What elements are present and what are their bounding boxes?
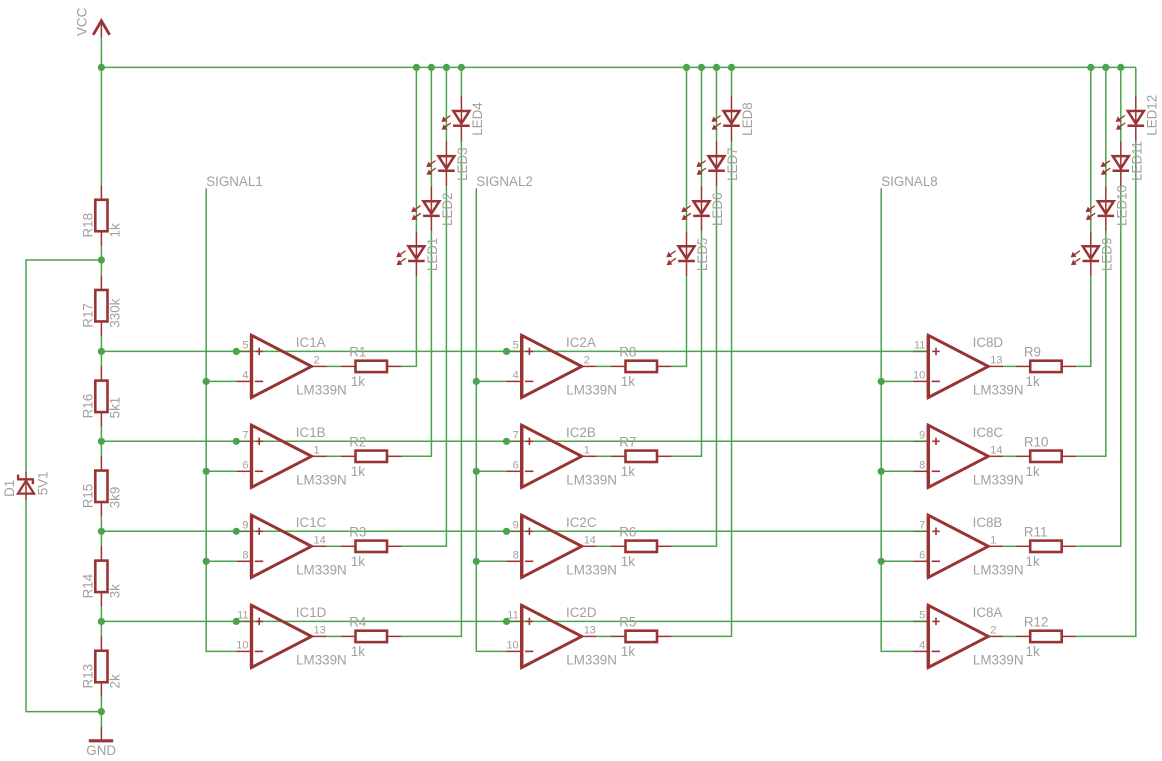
- LED LED11: [1101, 141, 1144, 186]
- wire R13 to next node: [100, 697, 102, 712]
- wire rail to LED10: [1105, 67, 1107, 186]
- wire rail to LED7: [716, 67, 718, 141]
- resistor R9 1k: [1016, 345, 1077, 390]
- svg-text:10: 10: [913, 370, 925, 382]
- svg-text:R13: R13: [80, 664, 95, 689]
- svg-text:330k: 330k: [108, 298, 123, 327]
- resistor R12 1k: [1016, 615, 1077, 660]
- junction rail LED5: [683, 64, 690, 71]
- wire IC1A output to R1: [327, 365, 341, 367]
- svg-text:R10: R10: [1024, 434, 1049, 449]
- resistor R5 1k: [611, 615, 672, 660]
- svg-text:LED2: LED2: [440, 193, 455, 227]
- svg-text:1k: 1k: [621, 374, 635, 389]
- wire R6 to LED7: [672, 186, 717, 546]
- junction IC1D noninverting input: [233, 618, 240, 625]
- LED LED7: [697, 141, 740, 186]
- svg-text:LED6: LED6: [710, 193, 725, 227]
- svg-text:SIGNAL1: SIGNAL1: [206, 174, 263, 189]
- svg-text:1: 1: [990, 534, 996, 546]
- svg-text:1: 1: [314, 444, 320, 456]
- svg-text:IC2D: IC2D: [566, 605, 597, 620]
- svg-text:1k: 1k: [108, 223, 123, 237]
- svg-text:R16: R16: [80, 394, 95, 419]
- svg-text:1k: 1k: [1026, 644, 1040, 659]
- wire SIGNAL1 spur row 2: [206, 470, 236, 472]
- wire SIGNAL1 spur row 3: [206, 560, 236, 562]
- junction SIGNAL8 row 3: [878, 558, 885, 565]
- wire net SIGNAL1 vertical: [206, 188, 236, 651]
- junction rail LED1: [413, 64, 420, 71]
- wire R11 to LED11: [1076, 186, 1121, 546]
- op-amp comparator IC1B LM339N: [236, 425, 346, 488]
- svg-text:4: 4: [242, 370, 248, 382]
- svg-text:8: 8: [919, 460, 925, 472]
- wire R4 to LED4: [402, 141, 462, 636]
- svg-text:7: 7: [242, 430, 248, 442]
- svg-text:IC8C: IC8C: [973, 425, 1004, 440]
- op-amp comparator IC2A LM339N: [507, 335, 617, 398]
- svg-text:IC8B: IC8B: [973, 515, 1003, 530]
- wire reference row 3: [101, 530, 928, 532]
- wire IC8C output to R10: [1003, 455, 1015, 457]
- wire rail to LED6: [701, 67, 703, 186]
- LED LED3: [427, 141, 470, 186]
- svg-text:5: 5: [919, 610, 925, 622]
- resistor R16 5k1: [80, 366, 122, 427]
- svg-text:1k: 1k: [1026, 554, 1040, 569]
- svg-text:14: 14: [314, 534, 326, 546]
- junction ladder tap 1: [98, 348, 105, 355]
- wire SIGNAL1 spur row 1: [206, 380, 236, 382]
- svg-text:R8: R8: [619, 345, 636, 360]
- wire tap2 to R15: [100, 441, 102, 456]
- svg-text:D1: D1: [2, 480, 17, 497]
- LED LED12: [1116, 95, 1159, 141]
- wire rail to LED9: [1090, 67, 1092, 231]
- wire R16 to next node: [100, 427, 102, 442]
- wire IC8D output to R9: [1003, 365, 1015, 367]
- resistor R18 1k: [80, 185, 122, 246]
- svg-text:LM339N: LM339N: [566, 383, 617, 398]
- svg-text:5: 5: [513, 340, 519, 352]
- svg-text:R18: R18: [80, 213, 95, 238]
- resistor R4 1k: [341, 615, 402, 660]
- svg-text:4: 4: [919, 640, 925, 652]
- svg-text:1: 1: [584, 444, 590, 456]
- svg-text:R5: R5: [619, 615, 636, 630]
- svg-text:LM339N: LM339N: [566, 653, 617, 668]
- wire rail to LED3: [445, 67, 447, 141]
- wire bottom node to GND: [100, 712, 102, 727]
- junction rail LED11: [1117, 64, 1124, 71]
- wire IC8B output to R11: [1003, 545, 1015, 547]
- svg-text:1k: 1k: [351, 554, 365, 569]
- junction IC2A noninverting input: [503, 348, 510, 355]
- wire IC2C output to R6: [597, 545, 611, 547]
- wire IC2B output to R7: [597, 455, 611, 457]
- wire reference row 2: [101, 440, 928, 442]
- svg-text:6: 6: [242, 460, 248, 472]
- junction ladder tap 4: [98, 618, 105, 625]
- wire R12 to LED12: [1076, 141, 1136, 636]
- wire R18 to node R17: [100, 246, 102, 260]
- svg-text:IC1A: IC1A: [296, 335, 326, 350]
- svg-text:LM339N: LM339N: [973, 653, 1024, 668]
- svg-text:LM339N: LM339N: [566, 473, 617, 488]
- svg-text:SIGNAL8: SIGNAL8: [881, 174, 938, 189]
- op-amp comparator IC8A LM339N: [913, 605, 1023, 668]
- wire tap1 to R16: [100, 351, 102, 366]
- resistor R15 3k9: [80, 456, 122, 517]
- junction SIGNAL8 row 2: [878, 468, 885, 475]
- LED LED2: [412, 186, 455, 231]
- svg-text:2k: 2k: [108, 674, 123, 688]
- svg-text:R7: R7: [619, 434, 636, 449]
- wire net SIGNAL2 vertical: [476, 188, 506, 651]
- svg-text:6: 6: [919, 550, 925, 562]
- resistor R10 1k: [1016, 434, 1077, 479]
- junction rail LED9: [1087, 64, 1094, 71]
- svg-text:LM339N: LM339N: [296, 383, 347, 398]
- svg-text:14: 14: [990, 444, 1002, 456]
- wire R1 to LED1: [402, 276, 417, 366]
- junction rail LED7: [713, 64, 720, 71]
- wire rail to LED1: [415, 67, 417, 231]
- junction SIGNAL2 row 2: [473, 468, 480, 475]
- junction SIGNAL8 row 1: [878, 378, 885, 385]
- svg-text:5: 5: [242, 340, 248, 352]
- svg-text:1k: 1k: [1026, 374, 1040, 389]
- svg-text:IC2B: IC2B: [566, 425, 596, 440]
- wire R10 to LED10: [1076, 231, 1106, 456]
- svg-text:LM339N: LM339N: [973, 383, 1024, 398]
- wire R2 to LED2: [402, 231, 432, 456]
- op-amp comparator IC1A LM339N: [236, 335, 346, 398]
- svg-text:LM339N: LM339N: [973, 563, 1024, 578]
- resistor R3 1k: [341, 524, 402, 569]
- svg-text:7: 7: [919, 520, 925, 532]
- LED LED5: [667, 231, 710, 276]
- svg-text:LED11: LED11: [1130, 141, 1145, 181]
- wire rail to LED4: [460, 67, 462, 96]
- junction rail LED6: [698, 64, 705, 71]
- wire SIGNAL8 spur row 3: [881, 560, 913, 562]
- svg-text:LED10: LED10: [1115, 185, 1130, 226]
- svg-text:9: 9: [513, 520, 519, 532]
- svg-text:LED1: LED1: [425, 238, 440, 272]
- op-amp comparator IC2D LM339N: [506, 605, 616, 668]
- junction rail LED3: [443, 64, 450, 71]
- svg-text:10: 10: [236, 640, 248, 652]
- wire rail to LED11: [1120, 67, 1122, 141]
- wire SIGNAL8 spur row 2: [881, 470, 913, 472]
- svg-text:13: 13: [990, 354, 1002, 366]
- resistor R2 1k: [341, 434, 402, 479]
- svg-text:13: 13: [584, 624, 596, 636]
- svg-text:LED7: LED7: [725, 147, 740, 181]
- wire D1 bottom to ladder bottom: [26, 500, 101, 711]
- svg-text:R17: R17: [80, 303, 95, 328]
- wire SIGNAL8 spur row 1: [881, 380, 913, 382]
- svg-text:R4: R4: [349, 615, 367, 630]
- resistor R11 1k: [1016, 524, 1077, 569]
- resistor R13 2k: [80, 636, 122, 697]
- wire IC2D output to R5: [597, 635, 611, 637]
- op-amp comparator IC2B LM339N: [507, 425, 617, 488]
- wire R3 to LED3: [402, 186, 447, 546]
- svg-text:1k: 1k: [351, 374, 365, 389]
- svg-text:2: 2: [584, 354, 590, 366]
- wire rail to LED5: [686, 67, 688, 231]
- LED LED4: [442, 96, 485, 141]
- resistor R1 1k: [341, 345, 402, 390]
- svg-text:4: 4: [513, 370, 519, 382]
- svg-text:R6: R6: [619, 524, 636, 539]
- svg-text:9: 9: [919, 430, 925, 442]
- svg-text:SIGNAL2: SIGNAL2: [476, 174, 533, 189]
- svg-text:IC1D: IC1D: [296, 605, 327, 620]
- svg-text:R12: R12: [1024, 615, 1049, 630]
- wire VCC to top rail: [100, 38, 102, 68]
- svg-text:IC8A: IC8A: [973, 605, 1003, 620]
- svg-text:1k: 1k: [621, 554, 635, 569]
- svg-text:IC1C: IC1C: [296, 515, 327, 530]
- junction IC2B noninverting input: [503, 438, 510, 445]
- svg-text:LED12: LED12: [1145, 95, 1160, 136]
- wire rail to LED2: [430, 67, 432, 186]
- wire SIGNAL2 spur row 1: [476, 380, 506, 382]
- svg-text:5k1: 5k1: [108, 397, 123, 419]
- junction IC1B noninverting input: [233, 438, 240, 445]
- junction ladder bottom node: [98, 708, 105, 715]
- svg-text:8: 8: [242, 550, 248, 562]
- svg-text:LED8: LED8: [740, 102, 755, 136]
- svg-text:VCC: VCC: [75, 7, 90, 36]
- svg-text:LED5: LED5: [695, 238, 710, 272]
- svg-text:1k: 1k: [351, 464, 365, 479]
- svg-text:LED4: LED4: [470, 102, 485, 136]
- svg-text:5V1: 5V1: [35, 471, 50, 495]
- junction rail LED8: [728, 64, 735, 71]
- svg-text:1k: 1k: [1026, 464, 1040, 479]
- svg-text:10: 10: [506, 640, 518, 652]
- junction SIGNAL1 row 2: [203, 468, 210, 475]
- LED LED8: [712, 96, 755, 141]
- resistor R17 330k: [80, 275, 122, 336]
- wire R14 to next node: [100, 607, 102, 622]
- wire IC8A output to R12: [1003, 635, 1015, 637]
- svg-text:2: 2: [990, 624, 996, 636]
- op-amp comparator IC8B LM339N: [913, 515, 1023, 578]
- resistor R6 1k: [611, 524, 672, 569]
- wire SIGNAL2 spur row 2: [476, 470, 506, 472]
- wire tap3 to R14: [100, 531, 102, 546]
- junction SIGNAL1 row 3: [203, 558, 210, 565]
- wire R17 to tap1: [100, 336, 102, 351]
- op-amp comparator IC8C LM339N: [913, 425, 1023, 488]
- op-amp comparator IC1D LM339N: [236, 605, 346, 668]
- svg-text:LED3: LED3: [455, 147, 470, 181]
- LED LED10: [1086, 185, 1129, 231]
- junction IC1C noninverting input: [233, 528, 240, 535]
- LED LED9: [1071, 231, 1114, 276]
- svg-text:LM339N: LM339N: [296, 563, 347, 578]
- resistor R7 1k: [611, 434, 672, 479]
- svg-text:6: 6: [513, 460, 519, 472]
- svg-text:LED9: LED9: [1100, 238, 1115, 272]
- wire R7 to LED6: [672, 231, 702, 456]
- svg-text:IC2A: IC2A: [566, 335, 596, 350]
- svg-text:LM339N: LM339N: [296, 653, 347, 668]
- svg-text:R11: R11: [1024, 524, 1048, 539]
- svg-text:LM339N: LM339N: [973, 473, 1024, 488]
- wire rail to LED12: [1135, 67, 1137, 96]
- junction ladder tap 3: [98, 528, 105, 535]
- LED LED1: [397, 231, 440, 276]
- wire tap4 to R13: [100, 621, 102, 636]
- wire R5 to LED8: [672, 141, 732, 636]
- svg-text:GND: GND: [86, 743, 116, 758]
- junction rail LED4: [458, 64, 465, 71]
- junction rail LED2: [428, 64, 435, 71]
- junction ladder node D1 tap: [98, 256, 105, 263]
- wire node to R17: [100, 260, 102, 275]
- wire reference row 1: [101, 350, 928, 352]
- op-amp comparator IC8D LM339N: [913, 335, 1023, 398]
- wire IC1C output to R3: [327, 545, 341, 547]
- svg-text:IC8D: IC8D: [973, 335, 1004, 350]
- wire R15 to next node: [100, 517, 102, 532]
- svg-text:R2: R2: [349, 434, 366, 449]
- svg-text:9: 9: [242, 520, 248, 532]
- op-amp comparator IC1C LM339N: [236, 515, 346, 578]
- svg-text:R3: R3: [349, 524, 366, 539]
- wire R9 to LED9: [1076, 276, 1091, 366]
- svg-text:3k: 3k: [108, 584, 123, 598]
- power symbol VCC: [75, 7, 110, 37]
- wire R8 to LED5: [672, 276, 687, 366]
- svg-text:R9: R9: [1024, 345, 1041, 360]
- junction SIGNAL2 row 1: [473, 378, 480, 385]
- power symbol GND: [86, 727, 116, 758]
- svg-text:2: 2: [314, 354, 320, 366]
- svg-text:LM339N: LM339N: [296, 473, 347, 488]
- svg-text:1k: 1k: [621, 464, 635, 479]
- junction IC2D noninverting input: [503, 618, 510, 625]
- junction SIGNAL1 row 1: [203, 378, 210, 385]
- wire net SIGNAL8 vertical: [881, 188, 913, 651]
- junction IC1A noninverting input: [233, 348, 240, 355]
- svg-text:13: 13: [314, 624, 326, 636]
- LED LED6: [682, 186, 725, 231]
- svg-text:IC1B: IC1B: [296, 425, 326, 440]
- svg-text:14: 14: [584, 534, 596, 546]
- resistor R8 1k: [611, 345, 672, 390]
- svg-text:R14: R14: [80, 573, 95, 598]
- junction top rail at ladder: [98, 64, 105, 71]
- svg-text:IC2C: IC2C: [566, 515, 597, 530]
- wire SIGNAL2 spur row 3: [476, 560, 506, 562]
- junction IC2C noninverting input: [503, 528, 510, 535]
- svg-text:R1: R1: [349, 345, 366, 360]
- wire IC2A output to R8: [597, 365, 611, 367]
- junction rail LED10: [1102, 64, 1109, 71]
- svg-text:7: 7: [513, 430, 519, 442]
- svg-text:11: 11: [914, 340, 925, 352]
- wire rail to LED8: [731, 67, 733, 96]
- wire top VCC rail: [101, 66, 1135, 68]
- wire node to D1 top: [26, 260, 101, 471]
- svg-text:LM339N: LM339N: [566, 563, 617, 578]
- wire IC1B output to R2: [327, 455, 341, 457]
- svg-text:R15: R15: [80, 484, 95, 509]
- svg-text:3k9: 3k9: [108, 487, 123, 509]
- wire reference row 4: [101, 620, 928, 622]
- svg-text:1k: 1k: [621, 644, 635, 659]
- svg-text:8: 8: [513, 550, 519, 562]
- resistor R14 3k: [80, 546, 122, 607]
- wire ladder VCC rail to R18: [100, 67, 102, 185]
- svg-text:1k: 1k: [351, 644, 365, 659]
- junction SIGNAL2 row 3: [473, 558, 480, 565]
- op-amp comparator IC2C LM339N: [507, 515, 617, 578]
- wire IC1D output to R4: [327, 635, 341, 637]
- junction ladder tap 2: [98, 438, 105, 445]
- zener diode D1 5V1: [2, 471, 50, 500]
